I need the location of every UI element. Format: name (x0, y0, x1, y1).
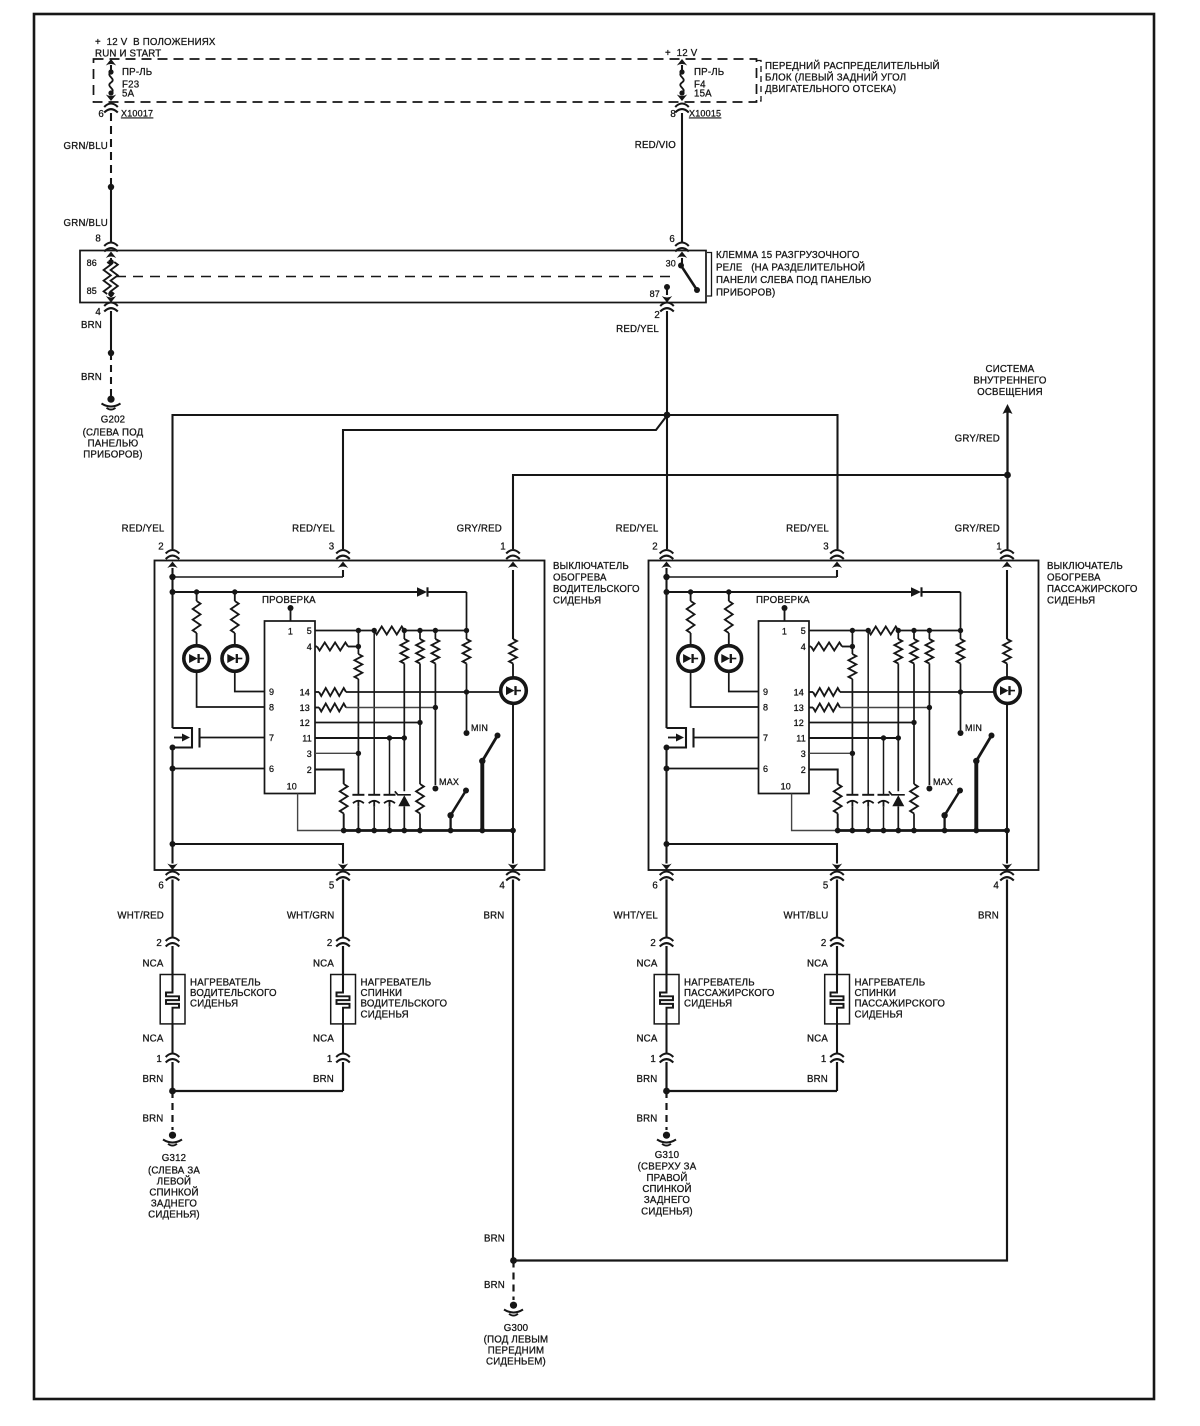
passenger backrest heater connector pin 1 (821, 1054, 844, 1066)
passenger seat heater wire NCA upper (636, 946, 666, 975)
right switch switch pin 1 connector (1000, 550, 1014, 559)
svg-text:СИДЕНЬЯ: СИДЕНЬЯ (684, 999, 732, 1010)
relay contact 30 (666, 252, 688, 269)
svg-text:2: 2 (654, 310, 660, 321)
wire labels left switch (122, 524, 506, 553)
svg-text:БЛОК (ЛЕВЫЙ ЗАДНИЙ УГОЛ: БЛОК (ЛЕВЫЙ ЗАДНИЙ УГОЛ (765, 72, 906, 84)
svg-text:NCA: NCA (636, 959, 657, 970)
right switch MIN switch (965, 723, 995, 831)
svg-text:GRY/RED: GRY/RED (955, 434, 1000, 445)
right switch pin 1 entry arrow (1002, 562, 1012, 640)
svg-text:СИДЕНЬЯ: СИДЕНЬЯ (361, 1009, 409, 1020)
svg-text:5: 5 (329, 881, 335, 892)
ground link passenger heaters (663, 1088, 837, 1095)
svg-text:3: 3 (307, 749, 312, 759)
left switch pin 1 entry arrow (508, 562, 518, 640)
right switch box label (1047, 561, 1138, 607)
left switch LED supply rail (170, 577, 418, 595)
left switch column D resistors R9 R10 (416, 631, 424, 831)
svg-text:+ 12 V: + 12 V (665, 48, 698, 59)
svg-text:1: 1 (996, 542, 1002, 553)
wire GRY/RED bus (513, 475, 1008, 549)
driver seat heater wire BRN (142, 1062, 172, 1091)
left switch wire IC pin 6 to rail (170, 748, 265, 845)
right switch illumination LED3 column (995, 639, 1021, 831)
wire BRN dashed to G202 (81, 353, 111, 396)
wire labels right switch (616, 524, 1002, 553)
svg-text:ПР-ЛЬ: ПР-ЛЬ (122, 67, 152, 78)
svg-text:RED/YEL: RED/YEL (292, 524, 335, 535)
svg-text:ВОДИТЕЛЬСКОГО: ВОДИТЕЛЬСКОГО (553, 584, 640, 595)
right switch wire IC pin 6 to rail (664, 748, 759, 845)
junction node BRN G300 (510, 1257, 517, 1264)
left switch resistor R2 (231, 592, 239, 646)
right switch wire to pin 5 exit (667, 844, 843, 870)
wire RED/YEL feed to left switch pin 3 (343, 416, 667, 550)
svg-text:ПАНЕЛИ СЛЕВА ПОД ПАНЕЛЬЮ: ПАНЕЛИ СЛЕВА ПОД ПАНЕЛЬЮ (716, 275, 871, 286)
driver seat heater heater element (160, 975, 277, 1054)
power feed label +12V (right) (665, 48, 698, 59)
svg-text:G202: G202 (101, 415, 126, 426)
svg-text:BRN: BRN (142, 1114, 163, 1125)
right switch capacitor C2 (862, 795, 874, 831)
svg-text:NCA: NCA (142, 959, 163, 970)
svg-text:BRN: BRN (483, 911, 504, 922)
svg-text:5A: 5A (122, 89, 135, 100)
svg-text:RED/YEL: RED/YEL (616, 524, 659, 535)
left switch bottom connectors pins 6 5 4 (158, 872, 519, 892)
driver seat heater connector pin 2 (156, 938, 179, 950)
wire BRN dashed to G300 (484, 1261, 514, 1301)
fuse F4 15A (677, 59, 725, 101)
svg-text:3: 3 (801, 749, 806, 759)
svg-text:ПРИБОРОВ): ПРИБОРОВ) (716, 288, 775, 299)
wire RED/YEL from relay 87 (616, 311, 667, 415)
svg-text:ОСВЕЩЕНИЯ: ОСВЕЩЕНИЯ (977, 387, 1043, 398)
svg-text:GRN/BLU: GRN/BLU (64, 218, 108, 229)
right switch IC pin 10 wire (792, 794, 838, 831)
left switch capacitor C1 (352, 795, 364, 831)
driver backrest heater wire NCA upper (313, 946, 343, 975)
passenger backrest heater connector pin 2 (821, 938, 844, 950)
svg-text:СПИНКОЙ: СПИНКОЙ (642, 1183, 691, 1195)
svg-text:12: 12 (794, 718, 804, 728)
left switch box label (553, 561, 640, 607)
svg-text:1: 1 (500, 542, 506, 553)
passenger backrest heater wire NCA upper (807, 946, 837, 975)
svg-text:G312: G312 (162, 1153, 187, 1164)
left switch control IC U1 (265, 621, 316, 794)
relay switch blade (681, 266, 700, 294)
left switch switch pin 2 connector (166, 550, 180, 559)
wire WHT/RED from driver seat heater (117, 880, 172, 938)
svg-text:NCA: NCA (142, 1034, 163, 1045)
passenger backrest heater heater element (825, 975, 946, 1054)
right switch wire to pin 4 exit (1002, 831, 1012, 871)
svg-text:BRN: BRN (81, 372, 102, 383)
passenger seat heater wire NCA lower (636, 1034, 657, 1045)
svg-text:RUN И START: RUN И START (95, 49, 161, 60)
svg-text:12: 12 (300, 718, 310, 728)
svg-text:(СЛЕВА ЗА: (СЛЕВА ЗА (148, 1166, 200, 1177)
left switch wire to pin 4 exit (508, 831, 518, 871)
svg-text:СИДЕНЬЯ: СИДЕНЬЯ (1047, 596, 1095, 607)
svg-text:7: 7 (269, 733, 274, 743)
right switch IC pin 4 row resistor R3 (809, 643, 855, 651)
svg-text:СПИНКИ: СПИНКИ (361, 988, 403, 999)
wire WHT/BLU from passenger backrest heater (784, 880, 838, 938)
right switch capacitor C3 (878, 738, 890, 831)
svg-text:BRN: BRN (484, 1234, 505, 1245)
right switch test point PROVERKA pin 1 (756, 595, 810, 621)
left switch node pin2/pin3 link (169, 574, 343, 580)
svg-text:СИСТЕМА: СИСТЕМА (986, 364, 1035, 375)
svg-text:ПЕРЕДНИМ: ПЕРЕДНИМ (488, 1346, 545, 1357)
wire RED/YEL feed to right switch pin 3 (667, 415, 838, 549)
ground G312 (148, 1132, 200, 1221)
right switch MOSFET Q1 (664, 592, 759, 751)
svg-text:СИДЕНЬЕМ): СИДЕНЬЕМ) (486, 1357, 546, 1368)
svg-text:MIN: MIN (965, 723, 982, 733)
driver backrest heater connector pin 2 (327, 938, 350, 950)
left switch IC pin 4 row resistor R3 (315, 643, 361, 651)
right switch switch pin 2 connector (660, 550, 674, 559)
svg-text:NCA: NCA (313, 1034, 334, 1045)
left switch IC pin 14 row resistor R5 (315, 688, 501, 696)
svg-text:X10017: X10017 (121, 109, 153, 119)
wire RED/VIO (635, 113, 682, 245)
left switch MAX switch (439, 777, 469, 831)
ground G202 (83, 396, 144, 461)
connector X10017 pin 6 (98, 104, 153, 121)
svg-text:НАГРЕВАТЕЛЬ: НАГРЕВАТЕЛЬ (190, 978, 261, 989)
svg-text:14: 14 (300, 688, 310, 698)
svg-text:+ 12 V В ПОЛОЖЕНИЯХ: + 12 V В ПОЛОЖЕНИЯХ (95, 37, 216, 48)
svg-text:СПИНКОЙ: СПИНКОЙ (149, 1187, 198, 1199)
svg-text:9: 9 (763, 687, 768, 697)
splice node GRN/BLU (108, 184, 114, 190)
left switch MIN switch (471, 723, 501, 831)
svg-text:3: 3 (329, 542, 335, 553)
svg-text:ВОДИТЕЛЬСКОГО: ВОДИТЕЛЬСКОГО (361, 999, 448, 1010)
svg-text:WHT/YEL: WHT/YEL (614, 911, 659, 922)
passenger seat heater heater element (654, 975, 775, 1054)
svg-text:ЗАДНЕГО: ЗАДНЕГО (644, 1195, 691, 1206)
svg-text:15A: 15A (694, 89, 712, 100)
right switch column C resistor R8 and zener D2 (889, 631, 905, 831)
right switch control IC U1 (759, 621, 810, 794)
svg-text:(СЛЕВА ПОД: (СЛЕВА ПОД (83, 428, 144, 439)
svg-text:ВЫКЛЮЧАТЕЛЬ: ВЫКЛЮЧАТЕЛЬ (1047, 561, 1123, 572)
right switch bottom connectors pins 6 5 4 (652, 872, 1013, 892)
passenger seat heater connector pin 1 (650, 1054, 673, 1066)
svg-text:BRN: BRN (978, 911, 999, 922)
wire RED/YEL feed to right switch pin 2 (666, 415, 668, 549)
svg-text:13: 13 (300, 703, 310, 713)
svg-text:СИДЕНЬЯ: СИДЕНЬЯ (553, 596, 601, 607)
right switch heater switch box (649, 561, 1039, 871)
right switch node pin2/pin3 link (663, 574, 837, 580)
driver seat heater wire NCA lower (142, 1034, 163, 1045)
right switch column D resistors R9 R10 (910, 631, 918, 831)
bracket to distribution box label (757, 61, 762, 102)
svg-text:ПР-ЛЬ: ПР-ЛЬ (694, 67, 724, 78)
svg-text:10: 10 (287, 782, 297, 792)
right switch switch pin 3 connector (830, 550, 844, 559)
svg-text:GRY/RED: GRY/RED (457, 524, 502, 535)
passenger seat heater wire BRN (636, 1062, 666, 1091)
driver seat heater wire NCA upper (142, 946, 172, 975)
svg-text:НАГРЕВАТЕЛЬ: НАГРЕВАТЕЛЬ (684, 978, 755, 989)
left switch column B wire (373, 631, 375, 795)
driver backrest heater connector pin 1 (327, 1054, 350, 1066)
driver backrest heater heater element (331, 975, 448, 1054)
svg-text:(СВЕРХУ ЗА: (СВЕРХУ ЗА (638, 1162, 697, 1173)
svg-text:8: 8 (670, 109, 676, 120)
left switch test point PROVERKA pin 1 (262, 595, 316, 621)
svg-text:2: 2 (801, 765, 806, 775)
svg-text:WHT/GRN: WHT/GRN (287, 911, 335, 922)
svg-text:ПАССАЖИРСКОГО: ПАССАЖИРСКОГО (855, 999, 946, 1010)
svg-text:87: 87 (650, 289, 660, 299)
svg-text:4: 4 (993, 881, 999, 892)
left switch IC pin 12 row (315, 720, 423, 725)
svg-text:4: 4 (95, 307, 101, 318)
svg-text:ПЕРЕДНИЙ РАСПРЕДЕЛИТЕЛЬНЫЙ: ПЕРЕДНИЙ РАСПРЕДЕЛИТЕЛЬНЫЙ (765, 60, 940, 72)
svg-text:7: 7 (763, 733, 768, 743)
right switch ground bus inside switch (835, 828, 1010, 834)
driver backrest heater wire NCA lower (313, 1034, 334, 1045)
right switch LED2 indicator (716, 646, 742, 672)
svg-text:2: 2 (327, 938, 333, 949)
svg-text:СИДЕНЬЯ: СИДЕНЬЯ (190, 999, 238, 1010)
svg-text:8: 8 (269, 703, 274, 713)
svg-text:СПИНКИ: СПИНКИ (855, 988, 897, 999)
svg-text:ПРОВЕРКА: ПРОВЕРКА (262, 595, 316, 606)
right switch IC pin 13 row resistor R6 (809, 704, 932, 712)
right switch column E resistor R11 to MAX contact (926, 631, 934, 792)
svg-text:5: 5 (801, 626, 806, 636)
left switch pin 3 exit arrow (338, 562, 348, 578)
passenger backrest heater wire NCA lower (807, 1034, 828, 1045)
relay contact 87 (650, 284, 673, 303)
svg-text:ПРИБОРОВ): ПРИБОРОВ) (83, 450, 142, 461)
svg-text:MAX: MAX (933, 777, 953, 787)
distribution box label text (765, 60, 940, 95)
svg-text:ПАНЕЛЬЮ: ПАНЕЛЬЮ (88, 439, 139, 450)
relay coil 86-85 (87, 252, 118, 303)
splice node BRN (108, 350, 114, 356)
svg-text:ПАССАЖИРСКОГО: ПАССАЖИРСКОГО (1047, 584, 1138, 595)
left switch heater switch box (155, 561, 545, 871)
svg-text:ВНУТРЕННЕГО: ВНУТРЕННЕГО (973, 376, 1047, 387)
ground G300 (484, 1302, 549, 1368)
left switch column C resistor R8 and zener D2 (395, 631, 411, 831)
svg-text:3: 3 (823, 542, 829, 553)
left switch node bottom left (170, 841, 176, 847)
svg-text:RED/VIO: RED/VIO (635, 140, 676, 151)
svg-text:NCA: NCA (807, 959, 828, 970)
svg-text:13: 13 (794, 703, 804, 713)
junction node GRY/RED (1004, 472, 1011, 479)
driver seat heater connector pin 1 (156, 1054, 179, 1066)
left switch IC pin 13 row resistor R6 (315, 704, 438, 712)
svg-text:MIN: MIN (471, 723, 488, 733)
right switch IC pin 12 row (809, 720, 917, 725)
svg-text:1: 1 (782, 627, 787, 637)
right switch LED1 indicator (678, 646, 704, 672)
left switch diode D1 (417, 587, 467, 596)
passenger backrest heater wire BRN (807, 1062, 837, 1091)
wire GRN/BLU dashed (64, 113, 111, 185)
svg-text:WHT/RED: WHT/RED (117, 911, 164, 922)
svg-text:ДВИГАТЕЛЬНОГО ОТСЕКА): ДВИГАТЕЛЬНОГО ОТСЕКА) (765, 84, 896, 95)
svg-text:11: 11 (302, 734, 312, 744)
wire BRN right switch pin 4 (513, 880, 1007, 1261)
svg-text:2: 2 (158, 542, 164, 553)
svg-text:6: 6 (652, 881, 658, 892)
left switch column A resistor R4 (355, 631, 363, 795)
left switch switch pin 3 connector (336, 550, 350, 559)
svg-text:11: 11 (796, 734, 806, 744)
left switch LED2 indicator (222, 646, 248, 672)
svg-text:NCA: NCA (636, 1034, 657, 1045)
svg-text:ОБОГРЕВА: ОБОГРЕВА (1047, 573, 1101, 584)
svg-text:1: 1 (821, 1054, 827, 1065)
svg-text:MAX: MAX (439, 777, 459, 787)
svg-text:НАГРЕВАТЕЛЬ: НАГРЕВАТЕЛЬ (361, 978, 432, 989)
svg-text:NCA: NCA (313, 959, 334, 970)
svg-text:RED/YEL: RED/YEL (122, 524, 165, 535)
left switch LED1 indicator (184, 646, 210, 672)
driver backrest heater wire BRN (313, 1062, 343, 1091)
ground link driver heaters (169, 1088, 343, 1095)
svg-text:ЗАДНЕГО: ЗАДНЕГО (151, 1199, 198, 1210)
wire GRY/RED to right switch pin 1 (1006, 475, 1008, 549)
svg-text:BRN: BRN (484, 1280, 505, 1291)
svg-text:BRN: BRN (81, 320, 102, 331)
left switch wire LED1 to IC pin 8 (197, 672, 265, 708)
svg-text:6: 6 (269, 764, 274, 774)
right switch resistor R1 (687, 592, 695, 646)
right switch pin 3 exit arrow (832, 562, 842, 578)
right switch wire LED2 to IC pin 9 (729, 672, 759, 692)
svg-text:4: 4 (307, 642, 312, 652)
right switch MAX switch (933, 777, 963, 831)
left switch diode-rail column resistor R12 to MIN contact (463, 592, 471, 736)
svg-text:BRN: BRN (807, 1074, 828, 1085)
left switch illumination LED3 column (501, 639, 527, 831)
left switch wire to pin 6 exit (167, 844, 177, 870)
wire RED/YEL feed to left switch pin 2 (173, 415, 668, 549)
svg-text:РЕЛЕ (НА РАЗДЕЛИТЕЛЬНОЙ: РЕЛЕ (НА РАЗДЕЛИТЕЛЬНОЙ (716, 262, 865, 274)
right switch wire to pin 6 exit (661, 844, 671, 870)
svg-text:85: 85 (87, 286, 97, 296)
right switch diode-rail column resistor R12 to MIN contact (957, 592, 965, 736)
wire GRN/BLU solid (64, 187, 111, 245)
svg-text:ПРАВОЙ: ПРАВОЙ (646, 1172, 687, 1184)
left switch column E resistor R11 to MAX contact (432, 631, 440, 792)
svg-text:WHT/BLU: WHT/BLU (784, 911, 829, 922)
wire BRN dashed to G310 (636, 1091, 666, 1130)
left switch IC pin 11 row (315, 735, 407, 740)
svg-text:НАГРЕВАТЕЛЬ: НАГРЕВАТЕЛЬ (855, 978, 926, 989)
wire GRY/RED to interior lighting system (955, 404, 1013, 475)
svg-text:2: 2 (821, 938, 827, 949)
relay top connector right pin 6 (675, 243, 689, 252)
svg-text:4: 4 (499, 881, 505, 892)
svg-text:2: 2 (307, 765, 312, 775)
passenger seat heater connector pin 2 (650, 938, 673, 950)
left switch MOSFET Q1 (170, 592, 265, 751)
svg-text:ПАССАЖИРСКОГО: ПАССАЖИРСКОГО (684, 988, 775, 999)
svg-text:1: 1 (288, 627, 293, 637)
left switch ground bus inside switch (341, 828, 516, 834)
relay bottom connector pin 2 (654, 303, 673, 322)
svg-text:RED/YEL: RED/YEL (616, 324, 659, 335)
svg-text:RED/YEL: RED/YEL (786, 524, 829, 535)
svg-text:BRN: BRN (636, 1114, 657, 1125)
svg-text:X10015: X10015 (689, 109, 721, 119)
svg-text:1: 1 (156, 1054, 162, 1065)
interior lighting system label (973, 364, 1047, 398)
svg-text:1: 1 (650, 1054, 656, 1065)
left switch capacitor C3 (384, 738, 396, 831)
right switch IC pin 11 row (809, 735, 901, 740)
svg-text:СИДЕНЬЯ: СИДЕНЬЯ (855, 1009, 903, 1020)
svg-text:(ПОД ЛЕВЫМ: (ПОД ЛЕВЫМ (484, 1334, 549, 1345)
svg-text:ПРОВЕРКА: ПРОВЕРКА (756, 595, 810, 606)
svg-text:6: 6 (98, 109, 104, 120)
svg-text:14: 14 (794, 688, 804, 698)
svg-text:BRN: BRN (636, 1074, 657, 1085)
left switch IC pin 2 row resistor R7 (315, 770, 348, 831)
left switch IC pin 3 row (315, 751, 361, 756)
left switch wire to pin 5 exit (173, 844, 349, 870)
right switch pin 2 entry arrow (661, 562, 671, 578)
right switch wire LED1 to IC pin 8 (691, 672, 759, 708)
svg-text:ВОДИТЕЛЬСКОГО: ВОДИТЕЛЬСКОГО (190, 988, 277, 999)
left switch switch pin 1 connector (506, 550, 520, 559)
relay bottom connector pin 4 (95, 303, 117, 319)
wire BRN to splice (81, 311, 111, 353)
svg-text:NCA: NCA (807, 1034, 828, 1045)
svg-text:2: 2 (650, 938, 656, 949)
right switch LED supply rail (664, 577, 912, 595)
right switch diode D1 (911, 587, 961, 596)
svg-text:6: 6 (763, 764, 768, 774)
svg-text:2: 2 (156, 938, 162, 949)
front power distribution box (dashed) (94, 59, 757, 102)
right switch resistor R2 (725, 592, 733, 646)
svg-text:ОБОГРЕВА: ОБОГРЕВА (553, 573, 607, 584)
svg-text:9: 9 (269, 687, 274, 697)
svg-text:BRN: BRN (313, 1074, 334, 1085)
wire BRN dashed to G312 (142, 1091, 172, 1130)
svg-text:BRN: BRN (142, 1074, 163, 1085)
svg-text:ЛЕВОЙ: ЛЕВОЙ (157, 1176, 191, 1188)
svg-text:GRY/RED: GRY/RED (955, 524, 1000, 535)
svg-text:GRN/BLU: GRN/BLU (64, 141, 108, 152)
svg-text:СИДЕНЬЯ): СИДЕНЬЯ) (641, 1206, 693, 1217)
right switch IC pin 3 row (809, 751, 855, 756)
svg-text:4: 4 (801, 642, 806, 652)
svg-text:86: 86 (87, 258, 97, 268)
svg-text:2: 2 (652, 542, 658, 553)
right switch node bottom left (664, 841, 670, 847)
connector X10015 pin 8 (670, 104, 721, 121)
wire BRN left switch pin 4 (483, 880, 513, 1261)
